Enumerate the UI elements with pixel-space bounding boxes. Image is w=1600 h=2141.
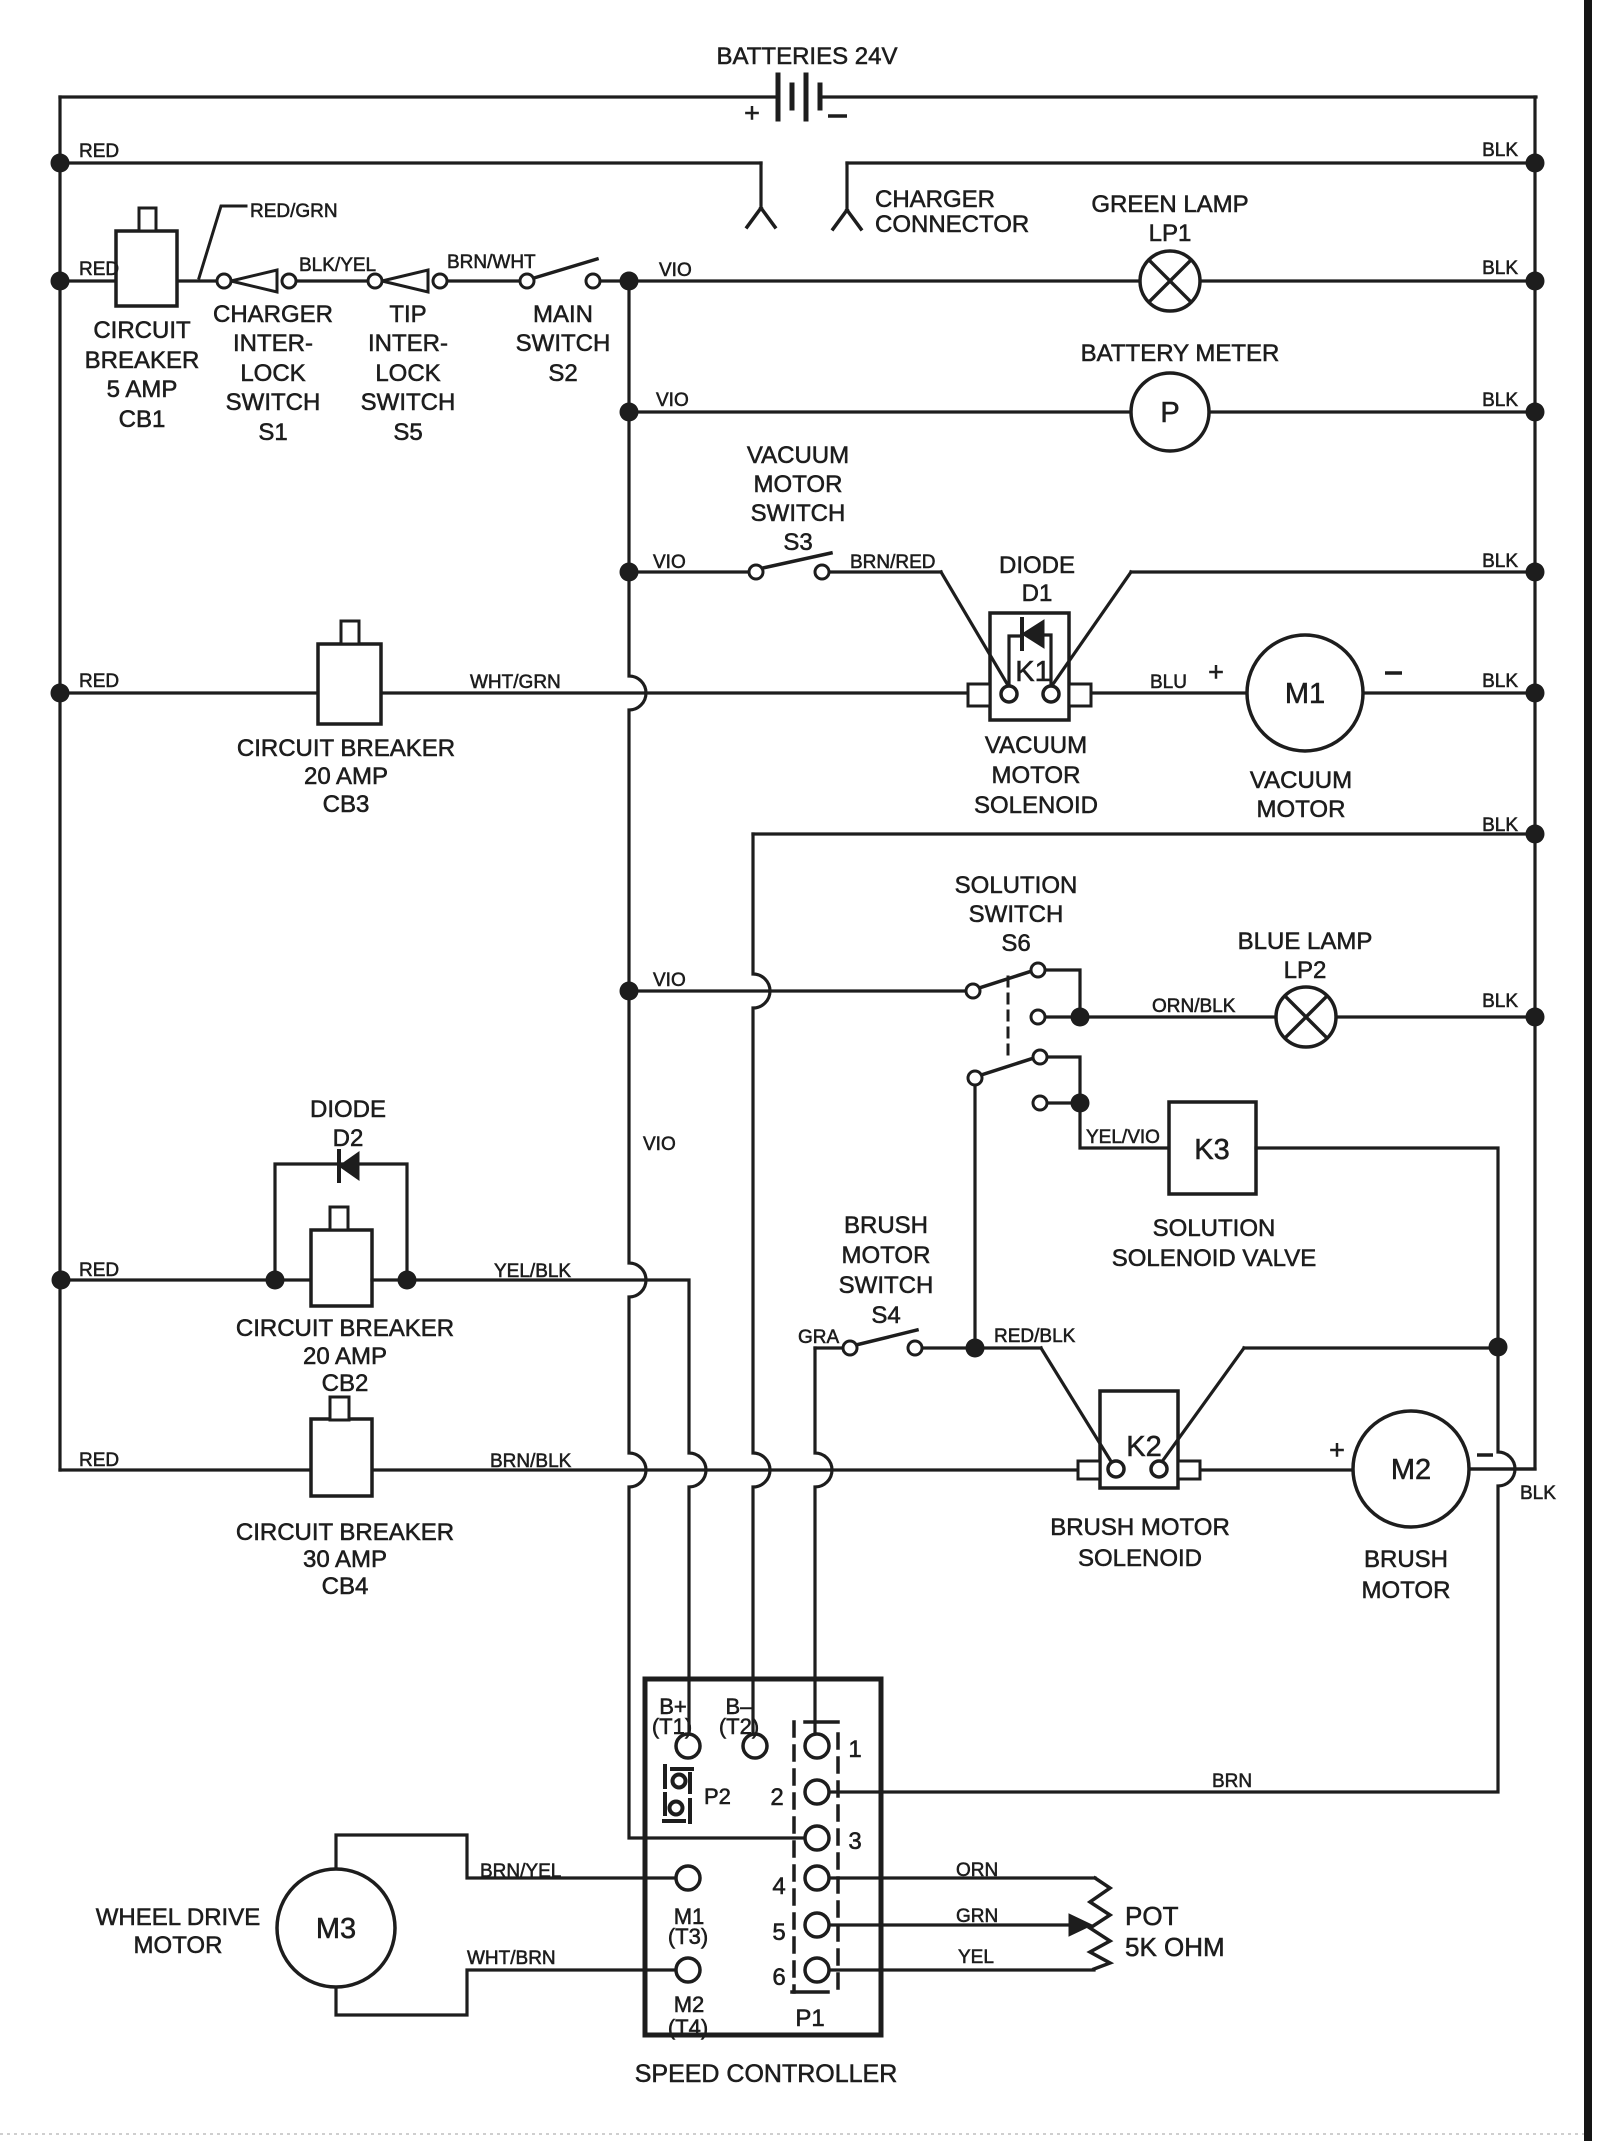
svg-text:M1: M1	[1285, 678, 1325, 710]
svg-text:SWITCH: SWITCH	[361, 389, 456, 416]
svg-text:M2: M2	[674, 1992, 705, 2017]
svg-text:K1: K1	[1015, 656, 1050, 688]
svg-text:CHARGER: CHARGER	[213, 301, 333, 328]
svg-text:S3: S3	[783, 529, 812, 556]
svg-text:BATTERY METER: BATTERY METER	[1081, 340, 1280, 367]
svg-text:LP1: LP1	[1149, 220, 1192, 247]
svg-text:BLK: BLK	[1482, 140, 1518, 161]
svg-text:DIODE: DIODE	[310, 1096, 386, 1123]
svg-text:RED: RED	[79, 671, 119, 692]
svg-text:RED: RED	[79, 1450, 119, 1471]
svg-text:MOTOR: MOTOR	[134, 1932, 223, 1959]
svg-text:VIO: VIO	[653, 552, 686, 573]
svg-text:VACUUM: VACUUM	[1250, 767, 1352, 794]
svg-text:K2: K2	[1126, 1431, 1161, 1463]
svg-text:1: 1	[848, 1736, 861, 1763]
svg-text:MOTOR: MOTOR	[754, 471, 843, 498]
svg-text:BLK: BLK	[1520, 1483, 1556, 1504]
svg-text:CB4: CB4	[322, 1573, 369, 1600]
svg-text:GREEN LAMP: GREEN LAMP	[1091, 191, 1248, 218]
svg-text:CIRCUIT BREAKER: CIRCUIT BREAKER	[237, 735, 455, 762]
svg-text:BRN/BLK: BRN/BLK	[490, 1451, 572, 1472]
svg-text:CB1: CB1	[119, 406, 166, 433]
svg-text:BLK: BLK	[1482, 390, 1518, 411]
svg-text:VACUUM: VACUUM	[747, 442, 849, 469]
svg-text:SOLENOID VALVE: SOLENOID VALVE	[1112, 1245, 1317, 1272]
svg-text:5K OHM: 5K OHM	[1125, 1932, 1225, 1962]
svg-text:4: 4	[772, 1873, 785, 1900]
svg-text:BLK: BLK	[1482, 551, 1518, 572]
svg-text:20 AMP: 20 AMP	[304, 763, 388, 790]
svg-text:S1: S1	[258, 419, 287, 446]
svg-text:RED/BLK: RED/BLK	[994, 1326, 1076, 1347]
svg-text:RED: RED	[79, 141, 119, 162]
svg-text:SOLENOID: SOLENOID	[974, 792, 1098, 819]
svg-text:D2: D2	[333, 1125, 364, 1152]
svg-text:(T2): (T2)	[719, 1714, 759, 1739]
svg-text:LP2: LP2	[1284, 957, 1327, 984]
svg-text:BRN: BRN	[1212, 1771, 1252, 1792]
svg-text:SWITCH: SWITCH	[751, 500, 846, 527]
svg-text:(T1): (T1)	[652, 1714, 692, 1739]
svg-text:MOTOR: MOTOR	[992, 762, 1081, 789]
svg-text:BLK: BLK	[1482, 815, 1518, 836]
svg-text:WHT/BRN: WHT/BRN	[467, 1948, 556, 1969]
svg-text:BLUE LAMP: BLUE LAMP	[1238, 928, 1373, 955]
svg-text:CIRCUIT BREAKER: CIRCUIT BREAKER	[236, 1519, 454, 1546]
svg-text:WHEEL DRIVE: WHEEL DRIVE	[96, 1904, 260, 1931]
svg-text:VIO: VIO	[656, 390, 689, 411]
svg-text:BRUSH: BRUSH	[1364, 1546, 1448, 1573]
svg-text:CHARGER: CHARGER	[875, 186, 995, 213]
svg-text:30 AMP: 30 AMP	[303, 1546, 387, 1573]
svg-text:ORN: ORN	[956, 1860, 998, 1881]
svg-text:S6: S6	[1001, 930, 1030, 957]
svg-text:P: P	[1160, 397, 1179, 429]
svg-text:VIO: VIO	[653, 970, 686, 991]
svg-text:M3: M3	[316, 1913, 356, 1945]
svg-text:CIRCUIT: CIRCUIT	[93, 317, 191, 344]
svg-text:BATTERIES 24V: BATTERIES 24V	[717, 43, 898, 70]
svg-text:CIRCUIT BREAKER: CIRCUIT BREAKER	[236, 1315, 454, 1342]
svg-text:BRN/WHT: BRN/WHT	[447, 252, 536, 273]
svg-text:SOLENOID: SOLENOID	[1078, 1545, 1202, 1572]
svg-text:5 AMP: 5 AMP	[107, 376, 178, 403]
svg-text:RED: RED	[79, 1260, 119, 1281]
svg-text:MOTOR: MOTOR	[1362, 1577, 1451, 1604]
svg-text:DIODE: DIODE	[999, 552, 1075, 579]
svg-text:BLK: BLK	[1482, 258, 1518, 279]
svg-text:WHT/GRN: WHT/GRN	[470, 672, 561, 693]
svg-text:S2: S2	[548, 360, 577, 387]
svg-text:SPEED CONTROLLER: SPEED CONTROLLER	[635, 2060, 898, 2088]
svg-text:+: +	[1329, 1435, 1345, 1465]
svg-text:BRUSH: BRUSH	[844, 1212, 928, 1239]
svg-text:POT: POT	[1125, 1901, 1179, 1931]
svg-text:P2: P2	[704, 1784, 731, 1809]
svg-text:SWITCH: SWITCH	[969, 901, 1064, 928]
svg-text:VACUUM: VACUUM	[985, 732, 1087, 759]
svg-text:INTER-: INTER-	[368, 330, 448, 357]
svg-text:GRN: GRN	[956, 1906, 998, 1927]
svg-text:CONNECTOR: CONNECTOR	[875, 211, 1029, 238]
svg-text:TIP: TIP	[389, 301, 426, 328]
svg-text:ORN/BLK: ORN/BLK	[1152, 996, 1236, 1017]
svg-text:MOTOR: MOTOR	[1257, 796, 1346, 823]
svg-text:GRA: GRA	[798, 1327, 840, 1348]
svg-text:SOLUTION: SOLUTION	[955, 872, 1078, 899]
svg-text:BLK/YEL: BLK/YEL	[299, 255, 376, 276]
svg-text:VIO: VIO	[659, 260, 692, 281]
svg-text:LOCK: LOCK	[375, 360, 440, 387]
svg-text:SOLUTION: SOLUTION	[1153, 1215, 1276, 1242]
svg-text:K3: K3	[1194, 1134, 1229, 1166]
svg-text:SWITCH: SWITCH	[516, 330, 611, 357]
svg-text:2: 2	[770, 1784, 783, 1811]
svg-text:MOTOR: MOTOR	[842, 1242, 931, 1269]
svg-text:SWITCH: SWITCH	[839, 1272, 934, 1299]
svg-text:(T4): (T4)	[668, 2015, 708, 2040]
svg-text:BRUSH MOTOR: BRUSH MOTOR	[1050, 1514, 1230, 1541]
svg-text:CB3: CB3	[323, 791, 370, 818]
svg-text:VIO: VIO	[643, 1134, 676, 1155]
svg-text:CB2: CB2	[322, 1370, 369, 1397]
svg-text:INTER-: INTER-	[233, 330, 313, 357]
svg-text:LOCK: LOCK	[240, 360, 305, 387]
svg-text:BRN/RED: BRN/RED	[850, 552, 936, 573]
svg-text:+: +	[1208, 657, 1224, 687]
svg-text:SWITCH: SWITCH	[226, 389, 321, 416]
svg-text:M2: M2	[1391, 1454, 1431, 1486]
svg-text:+: +	[744, 98, 760, 128]
svg-text:RED: RED	[79, 259, 119, 280]
svg-text:BLK: BLK	[1482, 991, 1518, 1012]
svg-text:BREAKER: BREAKER	[85, 347, 200, 374]
svg-text:6: 6	[772, 1964, 785, 1991]
svg-text:YEL: YEL	[958, 1947, 994, 1968]
svg-text:D1: D1	[1022, 580, 1053, 607]
svg-text:BLU: BLU	[1150, 672, 1187, 693]
svg-text:BRN/YEL: BRN/YEL	[480, 1861, 561, 1882]
svg-text:S5: S5	[393, 419, 422, 446]
svg-text:BLK: BLK	[1482, 671, 1518, 692]
svg-text:20 AMP: 20 AMP	[303, 1343, 387, 1370]
svg-text:YEL/BLK: YEL/BLK	[494, 1261, 571, 1282]
svg-text:MAIN: MAIN	[533, 301, 593, 328]
svg-text:S4: S4	[871, 1302, 900, 1329]
svg-text:3: 3	[848, 1828, 861, 1855]
svg-text:YEL/VIO: YEL/VIO	[1086, 1127, 1160, 1148]
svg-text:P1: P1	[795, 2005, 824, 2032]
svg-text:5: 5	[772, 1919, 785, 1946]
svg-text:RED/GRN: RED/GRN	[250, 201, 338, 222]
svg-text:(T3): (T3)	[668, 1924, 708, 1949]
